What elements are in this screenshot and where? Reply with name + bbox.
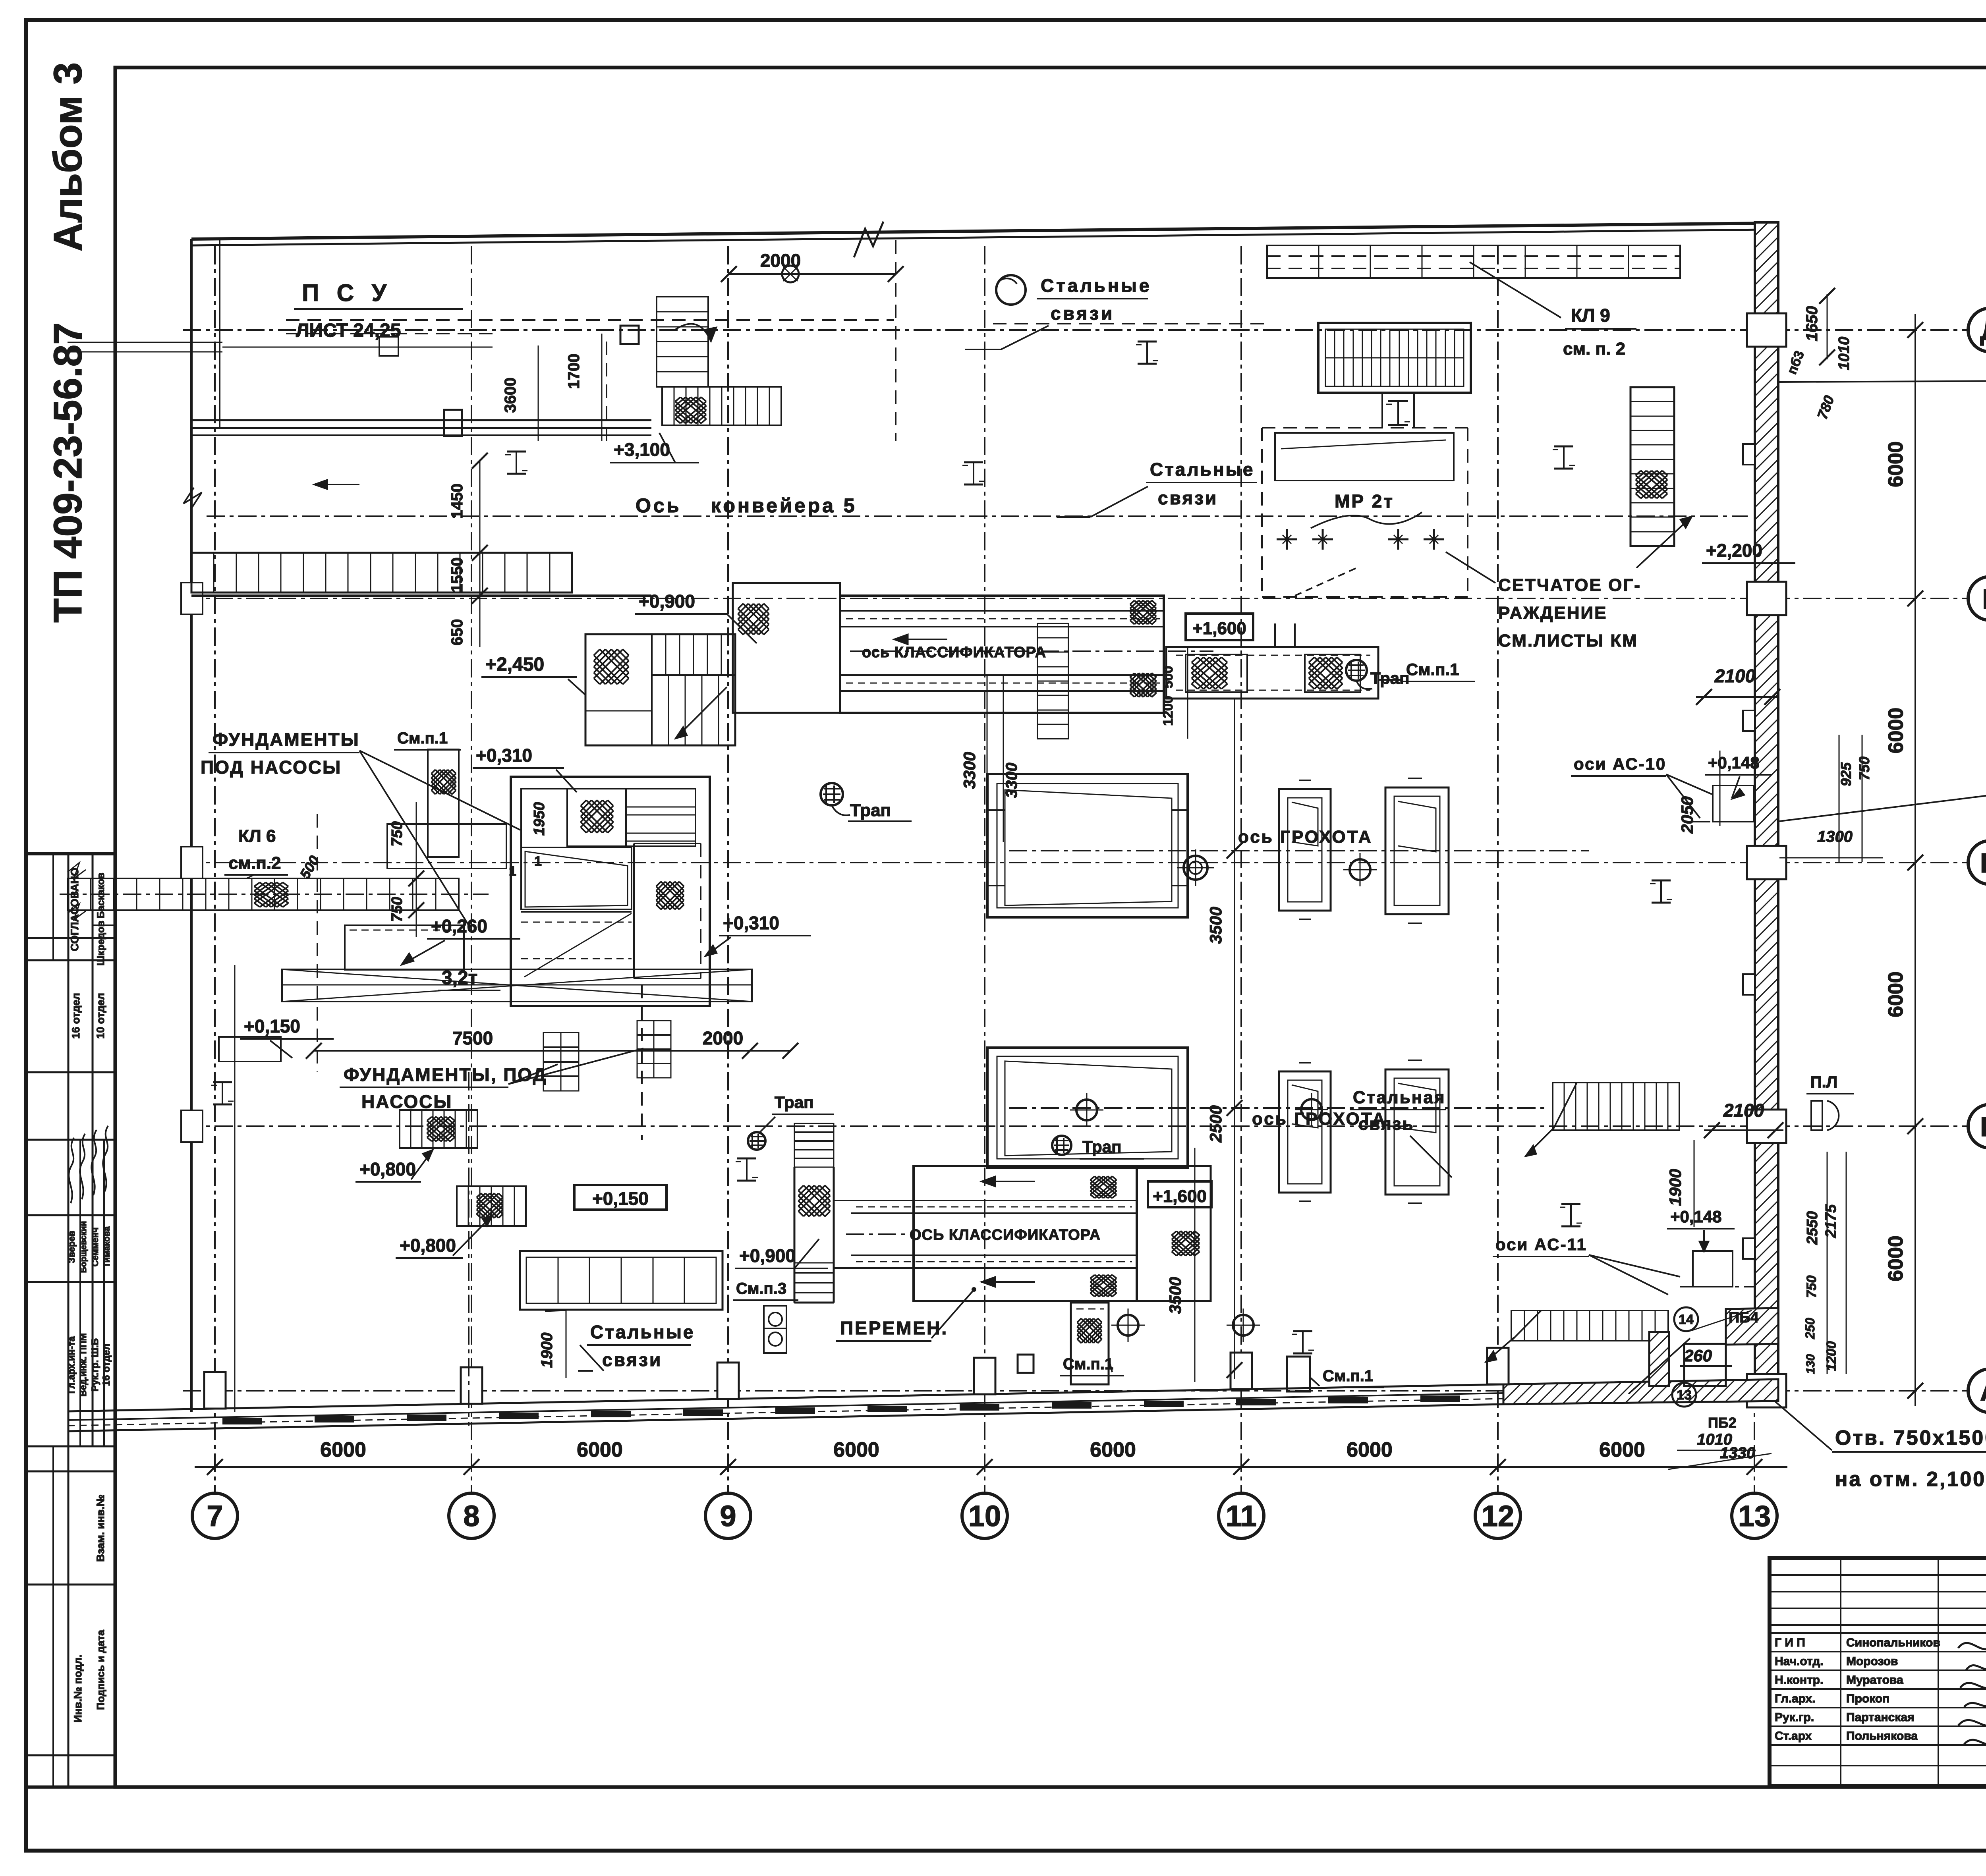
- svg-text:См.п.3: См.п.3: [736, 1280, 786, 1297]
- MR2t feeder machine: [1262, 323, 1471, 597]
- svg-text:Инв.№ подл.: Инв.№ подл.: [72, 1654, 84, 1723]
- ladder bottom right: [1486, 1310, 1668, 1362]
- svg-text:3500: 3500: [1206, 907, 1225, 944]
- right axis row А-Д with dimension line: [183, 308, 1986, 1413]
- dim 7500 2000: [306, 1028, 798, 1059]
- block +0,800 b: [457, 1186, 526, 1226]
- svg-text:Гл.арх.: Гл.арх.: [1775, 1692, 1816, 1705]
- svg-text:7500: 7500: [452, 1028, 493, 1048]
- svg-text:П.Л: П.Л: [1810, 1073, 1837, 1091]
- pit rect left: [219, 1037, 281, 1062]
- svg-text:Нач.отд.: Нач.отд.: [1775, 1655, 1824, 1668]
- svg-text:см. п. 2: см. п. 2: [1563, 339, 1625, 359]
- svg-text:ЛИСТ 24,25: ЛИСТ 24,25: [296, 320, 401, 341]
- KL9 conveyor band: [1267, 245, 1680, 278]
- svg-text:П С У: П С У: [302, 280, 392, 306]
- bottom boundary wall: [68, 1379, 1778, 1431]
- svg-text:Г: Г: [1982, 583, 1986, 614]
- svg-text:1: 1: [509, 864, 516, 879]
- dim 2100 upper: [1696, 666, 1780, 705]
- svg-text:НАСОСЫ: НАСОСЫ: [361, 1091, 452, 1112]
- label +0,900 bottom: [735, 1239, 828, 1268]
- label +2,200: [1702, 540, 1795, 563]
- svg-text:связи: связи: [602, 1349, 662, 1370]
- svg-text:оси АС-11: оси АС-11: [1495, 1235, 1587, 1254]
- svg-text:12: 12: [1482, 1500, 1514, 1532]
- label KL9: [1470, 262, 1636, 359]
- dim 3300 left chain: [960, 675, 987, 846]
- dim 1900 rot: [538, 1310, 566, 1378]
- label sm.p.3: [733, 1280, 798, 1300]
- foundation rect 1: [387, 824, 506, 869]
- svg-text:8: 8: [463, 1500, 479, 1532]
- steel ties label bottom left: [578, 1322, 695, 1371]
- svg-text:Б: Б: [1980, 1111, 1986, 1142]
- svg-text:+0,150: +0,150: [244, 1016, 300, 1036]
- stair plus2450 block: [585, 634, 735, 745]
- svg-text:Тимакова: Тимакова: [102, 1226, 112, 1268]
- svg-text:6000: 6000: [1884, 1235, 1907, 1282]
- plan top boundary wall: [191, 222, 1768, 257]
- mesh guard label: [1446, 552, 1641, 650]
- svg-text:6000: 6000: [1884, 971, 1907, 1017]
- opening note top right: [1779, 355, 1986, 411]
- svg-text:+0,150: +0,150: [592, 1188, 649, 1209]
- foundation rect 2: [345, 925, 464, 970]
- svg-text:+0,148: +0,148: [1708, 753, 1760, 772]
- label pb4: [1692, 1309, 1759, 1330]
- svg-text:ТП 409-23-56.87: ТП 409-23-56.87: [46, 322, 90, 623]
- svg-text:Прокоп: Прокоп: [1846, 1692, 1889, 1705]
- svg-text:Трап: Трап: [775, 1093, 813, 1112]
- svg-text:2050: 2050: [1678, 796, 1696, 834]
- steel tie label row B: [1350, 1088, 1452, 1177]
- dim chain x3075: [1206, 699, 1242, 1378]
- tall screen R2: [1385, 778, 1449, 923]
- circle 14: [1674, 1307, 1698, 1331]
- foundation label bottom: [340, 1048, 643, 1112]
- trap station bottom: [764, 1306, 786, 1353]
- svg-text:+1,600: +1,600: [1153, 1187, 1207, 1206]
- label +3,100: [610, 433, 699, 463]
- svg-text:Польнякова: Польнякова: [1846, 1729, 1918, 1743]
- svg-text:Рук.гр. Ш.Б: Рук.гр. Ш.Б: [90, 1338, 100, 1392]
- label 3,2t: [438, 967, 500, 990]
- KL6 conveyor band: [60, 802, 489, 937]
- label 260: [1629, 1338, 1732, 1394]
- right boundary wall hatched: [1743, 222, 1786, 1407]
- svg-text:КЛ 9: КЛ 9: [1571, 305, 1610, 326]
- svg-text:+2,450: +2,450: [485, 654, 544, 675]
- svg-text:1010: 1010: [1836, 337, 1853, 371]
- svg-text:Г И П: Г И П: [1775, 1636, 1805, 1649]
- svg-text:500: 500: [1161, 666, 1176, 689]
- svg-text:конвейера 5: конвейера 5: [711, 494, 857, 517]
- svg-text:1200: 1200: [1824, 1341, 1839, 1371]
- svg-text:Семменч: Семменч: [90, 1228, 100, 1267]
- svg-text:+0,800: +0,800: [400, 1235, 456, 1256]
- svg-text:6000: 6000: [833, 1438, 879, 1461]
- door block sm.p.1 bottom: [1071, 1303, 1109, 1384]
- label +0,310 right: [705, 913, 811, 956]
- svg-text:1900: 1900: [538, 1333, 556, 1368]
- block +0,800 a: [400, 1110, 477, 1148]
- circle 13s: [1672, 1383, 1696, 1407]
- svg-text:+1,600: +1,600: [1192, 619, 1246, 638]
- svg-text:1200: 1200: [1161, 696, 1176, 726]
- door bottom wall: [1287, 1357, 1310, 1392]
- trap row2 a: [1070, 1093, 1103, 1127]
- upper thin band left: [68, 337, 493, 356]
- vert dash pump axis: [468, 1072, 469, 1426]
- svg-text:650: 650: [448, 619, 466, 646]
- svg-text:750: 750: [389, 897, 406, 922]
- svg-text:6000: 6000: [320, 1438, 366, 1461]
- striped block bottom left: [520, 1251, 723, 1310]
- svg-text:СЕТЧАТОЕ ОГ-: СЕТЧАТОЕ ОГ-: [1498, 575, 1641, 595]
- trap row1 right: [1343, 853, 1377, 886]
- dim 2100 lower: [1704, 1100, 1783, 1138]
- trap label near feeder: [1346, 660, 1409, 689]
- svg-text:Стальная: Стальная: [1353, 1088, 1446, 1107]
- svg-text:250: 250: [1803, 1318, 1817, 1339]
- svg-text:13: 13: [1738, 1500, 1771, 1532]
- tall screen R4: [1385, 1060, 1449, 1203]
- svg-text:16 отдел: 16 отдел: [101, 1344, 112, 1386]
- bottom axis row 7-13 with dimension line: [192, 246, 1787, 1538]
- svg-text:+0,310: +0,310: [476, 745, 532, 766]
- feeder block sm.p.1 top: [1166, 623, 1475, 699]
- sidebar vertical title text: [46, 62, 90, 623]
- osi AS-10 label: [1571, 755, 1712, 818]
- svg-text:+0,260: +0,260: [431, 916, 487, 936]
- svg-text:Партанская: Партанская: [1846, 1711, 1915, 1724]
- svg-text:Баскаков: Баскаков: [95, 872, 106, 918]
- vert dashed lines misc: [235, 814, 1234, 1412]
- svg-text:Стальные: Стальные: [1150, 459, 1254, 480]
- title block: [1770, 1558, 1986, 1787]
- label +0,260: [401, 916, 520, 965]
- dims 3600 1700: [502, 334, 602, 441]
- corner pier: [1649, 1332, 1669, 1386]
- classifier machine bottom: [794, 1123, 1211, 1382]
- column ibeam symbols: [211, 342, 1672, 1353]
- svg-text:6000: 6000: [1599, 1438, 1645, 1461]
- small box AS10: [1692, 751, 1756, 826]
- svg-text:связь: связь: [1358, 1114, 1414, 1134]
- svg-text:Борщевский: Борщевский: [79, 1221, 88, 1273]
- conveyor line upper: [191, 326, 651, 436]
- svg-text:Синопальников: Синопальников: [1846, 1636, 1940, 1649]
- dim 1650 pb3: [1784, 288, 1853, 421]
- svg-text:См.п.1: См.п.1: [1063, 1355, 1113, 1373]
- block sm.p.1 left: [394, 730, 461, 857]
- svg-text:6000: 6000: [1090, 1438, 1136, 1461]
- svg-text:См.п.1: См.п.1: [1406, 660, 1459, 679]
- svg-text:+2,200: +2,200: [1706, 540, 1762, 561]
- small door bottom: [1018, 1355, 1034, 1373]
- tall screen R3: [1279, 1063, 1331, 1201]
- svg-text:+3,100: +3,100: [614, 439, 670, 460]
- svg-text:+0,900: +0,900: [639, 591, 695, 612]
- svg-text:Трап: Трап: [1370, 669, 1409, 687]
- boxed label +0,150: [574, 1185, 667, 1210]
- screen machine mid row2: [987, 1048, 1549, 1168]
- svg-text:Подпись и дата: Подпись и дата: [95, 1630, 106, 1710]
- trap row2 b: [1295, 1093, 1328, 1126]
- screen machine mid row1: [987, 675, 1589, 917]
- svg-text:925: 925: [1838, 762, 1854, 786]
- label +0,310 left: [473, 745, 577, 792]
- svg-text:9: 9: [720, 1500, 736, 1532]
- ladder row2 right: [1525, 1083, 1679, 1156]
- svg-text:2000: 2000: [703, 1028, 743, 1048]
- svg-text:ПОД НАСОСЫ: ПОД НАСОСЫ: [201, 757, 342, 778]
- svg-text:см.п.2: см.п.2: [228, 853, 281, 873]
- svg-text:+0,900: +0,900: [739, 1245, 796, 1266]
- svg-text:ФУНДАМЕНТЫ: ФУНДАМЕНТЫ: [213, 729, 360, 750]
- svg-text:+0,800: +0,800: [359, 1159, 416, 1179]
- svg-text:Д: Д: [1980, 315, 1986, 346]
- small drain circle top: [782, 266, 799, 282]
- label sm.p.1 wall: [1311, 1367, 1384, 1388]
- svg-text:Зверев: Зверев: [66, 1231, 77, 1263]
- svg-text:10: 10: [968, 1500, 1001, 1532]
- svg-text:Трап: Трап: [1082, 1137, 1121, 1156]
- label +0,800 a: [355, 1150, 433, 1182]
- dims 1450 1550 650: [448, 453, 488, 647]
- break mark left wall: [184, 488, 202, 508]
- big circle symbol top: [996, 275, 1026, 305]
- svg-text:1700: 1700: [565, 354, 583, 389]
- svg-text:750: 750: [1856, 757, 1872, 780]
- svg-text:Трап: Трап: [850, 801, 891, 820]
- label +0,148 lower: [1667, 1207, 1735, 1252]
- svg-text:3600: 3600: [502, 378, 519, 413]
- trap 2 with label: [821, 783, 912, 821]
- stair right vertical: [1631, 387, 1692, 568]
- svg-text:13: 13: [1677, 1388, 1692, 1403]
- svg-text:Гл.арх.ин-та: Гл.арх.ин-та: [66, 1336, 77, 1393]
- svg-text:Альбом 3: Альбом 3: [46, 62, 90, 251]
- svg-text:14: 14: [1679, 1312, 1694, 1327]
- sidebar stamp table: [26, 854, 115, 1787]
- svg-text:1650: 1650: [1803, 306, 1821, 342]
- crane beam crossed: [282, 969, 752, 1002]
- svg-text:Шкредов: Шкредов: [95, 921, 106, 965]
- classifier machine top: [733, 583, 1253, 739]
- svg-text:130: 130: [1804, 1354, 1817, 1374]
- svg-text:Стальные: Стальные: [590, 1322, 695, 1342]
- dim 1900 rot right: [1666, 1140, 1694, 1227]
- svg-text:Н.контр.: Н.контр.: [1775, 1673, 1823, 1687]
- left wall columns: [181, 583, 203, 1142]
- svg-text:2500: 2500: [1206, 1105, 1225, 1143]
- svg-text:2100: 2100: [1723, 1100, 1764, 1121]
- opening note mid right: [1779, 755, 1986, 821]
- svg-text:3300: 3300: [960, 752, 979, 789]
- svg-text:связи: связи: [1158, 488, 1218, 508]
- label +0,900 top: [635, 591, 757, 643]
- svg-text:А: А: [1980, 1376, 1986, 1407]
- label +0,148 upper: [1705, 753, 1772, 799]
- central assembly unit: [509, 777, 710, 1006]
- svg-text:Взам. инв.№: Взам. инв.№: [95, 1494, 106, 1562]
- svg-text:6000: 6000: [577, 1438, 623, 1461]
- svg-text:Морозов: Морозов: [1846, 1655, 1898, 1668]
- foundation grid A: [543, 1033, 579, 1091]
- label +0,150 left: [240, 1016, 334, 1058]
- svg-text:6000: 6000: [1885, 708, 1908, 754]
- svg-text:Муратова: Муратова: [1846, 1673, 1903, 1687]
- svg-text:РАЖДЕНИЕ: РАЖДЕНИЕ: [1498, 603, 1607, 623]
- svg-text:1: 1: [534, 854, 542, 869]
- opening note bottom: [1775, 1402, 1986, 1491]
- label sm.p.1 bottom: [1060, 1355, 1124, 1376]
- svg-text:ПБ4: ПБ4: [1729, 1309, 1759, 1326]
- svg-text:ОСЬ КЛАССИФИКАТОРА: ОСЬ КЛАССИФИКАТОРА: [910, 1227, 1101, 1243]
- svg-text:10 отдел: 10 отдел: [95, 993, 106, 1039]
- corner opening: [1684, 1344, 1726, 1386]
- steel ties dash lines top: [286, 320, 1265, 334]
- svg-text:МР 2т: МР 2т: [1335, 491, 1394, 511]
- label peremen: [836, 1287, 976, 1341]
- tall screen R1: [1279, 780, 1331, 919]
- vertical ladder mid: [1037, 623, 1068, 739]
- svg-text:1450: 1450: [448, 484, 466, 519]
- svg-text:260: 260: [1684, 1346, 1712, 1365]
- svg-text:Отв. 750х1500. Низ: Отв. 750х1500. Низ: [1835, 1426, 1986, 1449]
- svg-text:1900: 1900: [1666, 1169, 1685, 1206]
- trap bottom pair: [1052, 1136, 1144, 1159]
- svg-text:оси АС-10: оси АС-10: [1574, 755, 1666, 773]
- svg-text:+0,148: +0,148: [1670, 1207, 1722, 1226]
- svg-text:7: 7: [207, 1500, 223, 1532]
- svg-text:СМ.ЛИСТЫ КМ: СМ.ЛИСТЫ КМ: [1498, 631, 1638, 650]
- svg-text:В: В: [1980, 847, 1986, 878]
- svg-text:Ось: Ось: [636, 494, 681, 517]
- bottom wall columns: [204, 1348, 1509, 1409]
- plan left boundary wall: [191, 239, 220, 1412]
- label steel ties 1: [965, 275, 1151, 349]
- label +0,800 b: [396, 1215, 493, 1258]
- dims right cluster: [1803, 1152, 1846, 1374]
- trap row1 double: [1177, 849, 1214, 886]
- label steel ties 2: [1057, 459, 1257, 517]
- svg-text:См.п.1: См.п.1: [397, 730, 448, 747]
- ladder conveyor band left: [191, 553, 651, 596]
- svg-text:2550: 2550: [1804, 1211, 1821, 1245]
- svg-text:6000: 6000: [1884, 441, 1907, 487]
- dim 2000 top: [607, 240, 904, 441]
- svg-text:Стальные: Стальные: [1041, 275, 1151, 296]
- axis conveyor 5 line: [207, 480, 1748, 517]
- svg-text:на отм. 2,100: на отм. 2,100: [1835, 1468, 1986, 1491]
- corner hatch upper: [1726, 1308, 1778, 1345]
- foundation grid B: [637, 1021, 671, 1078]
- dim 2050: [1678, 796, 1696, 834]
- osi AS-11 label: [1493, 1235, 1680, 1295]
- svg-text:1950: 1950: [531, 802, 548, 836]
- svg-text:750: 750: [1804, 1276, 1819, 1298]
- svg-text:750: 750: [389, 821, 406, 846]
- svg-text:ПБ2: ПБ2: [1708, 1415, 1737, 1431]
- svg-text:3300: 3300: [1003, 763, 1020, 798]
- svg-text:11: 11: [1226, 1500, 1257, 1532]
- svg-text:3500: 3500: [1166, 1277, 1184, 1314]
- label PSU list 24,25: [294, 280, 463, 341]
- label +2,450: [481, 654, 585, 695]
- svg-text:+0,310: +0,310: [723, 913, 779, 933]
- svg-text:Ст.арх: Ст.арх: [1775, 1729, 1812, 1743]
- stair top-center: [657, 297, 781, 425]
- svg-text:Рук.гр.: Рук.гр.: [1775, 1711, 1814, 1724]
- svg-text:1550: 1550: [448, 558, 466, 593]
- svg-text:6000: 6000: [1347, 1438, 1393, 1461]
- svg-text:2100: 2100: [1714, 666, 1756, 686]
- small box AS11: [1680, 1251, 1756, 1287]
- dim 1300 925 750: [1779, 735, 1883, 862]
- PL symbol: [1806, 1073, 1854, 1130]
- svg-text:Вед.инж. ППМ: Вед.инж. ППМ: [78, 1333, 88, 1397]
- trap small upper: [748, 1093, 834, 1150]
- label pb2 1010 1330: [1668, 1415, 1772, 1469]
- svg-text:ось КЛАССИФИКАТОРА: ось КЛАССИФИКАТОРА: [862, 644, 1046, 661]
- trap row2 c: [1111, 1309, 1260, 1342]
- svg-text:2175: 2175: [1823, 1204, 1839, 1238]
- svg-text:КЛ 6: КЛ 6: [238, 826, 276, 846]
- svg-text:связи: связи: [1051, 303, 1115, 324]
- svg-text:См.п.1: См.п.1: [1323, 1367, 1373, 1385]
- svg-text:1300: 1300: [1817, 828, 1853, 845]
- svg-text:16 отдел: 16 отдел: [70, 993, 82, 1039]
- foundation label top: [201, 729, 520, 925]
- svg-text:ПЕРЕМЕН.: ПЕРЕМЕН.: [840, 1318, 948, 1338]
